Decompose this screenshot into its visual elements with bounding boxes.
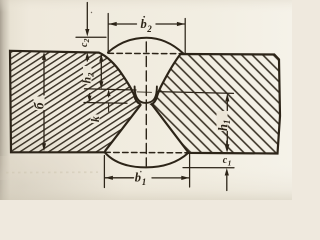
svg-text:1: 1 bbox=[228, 159, 232, 168]
svg-text:2: 2 bbox=[85, 72, 95, 78]
svg-text:2: 2 bbox=[146, 24, 152, 34]
svg-text:2: 2 bbox=[82, 38, 91, 43]
svg-text:1: 1 bbox=[142, 177, 147, 187]
svg-text:1: 1 bbox=[222, 120, 232, 125]
svg-text:k: k bbox=[90, 116, 102, 122]
svg-text:b: b bbox=[135, 170, 141, 184]
svg-text:b: b bbox=[141, 17, 147, 31]
